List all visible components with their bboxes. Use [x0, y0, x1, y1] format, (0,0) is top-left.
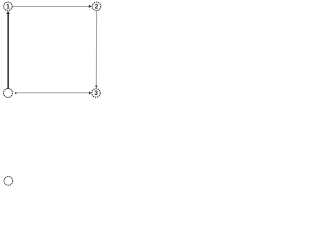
node BL (unlabeled) — [4, 89, 13, 98]
node iso (isolated, unlabeled) — [4, 177, 13, 186]
wire: right edge 2->3 — [95, 11, 97, 86]
node 2 — [92, 2, 101, 11]
svg-text:1: 1 — [6, 4, 10, 11]
junction dot at BL node — [15, 92, 17, 94]
arrowhead into node 3 (bottom edge) — [89, 91, 91, 94]
svg-text:2: 2 — [95, 4, 99, 11]
node 3 — [92, 89, 101, 98]
arrowhead into node 3 — [95, 86, 98, 89]
arrowhead into node 1 — [6, 11, 10, 14]
wire: bottom edge BL-3 — [16, 92, 89, 94]
wire: top edge 1->2 — [13, 6, 90, 8]
node 1 — [4, 2, 13, 11]
arrowhead into node 2 — [89, 5, 92, 8]
svg-text:3: 3 — [94, 90, 98, 97]
wire: left edge BL->1 (bold) — [7, 13, 9, 88]
